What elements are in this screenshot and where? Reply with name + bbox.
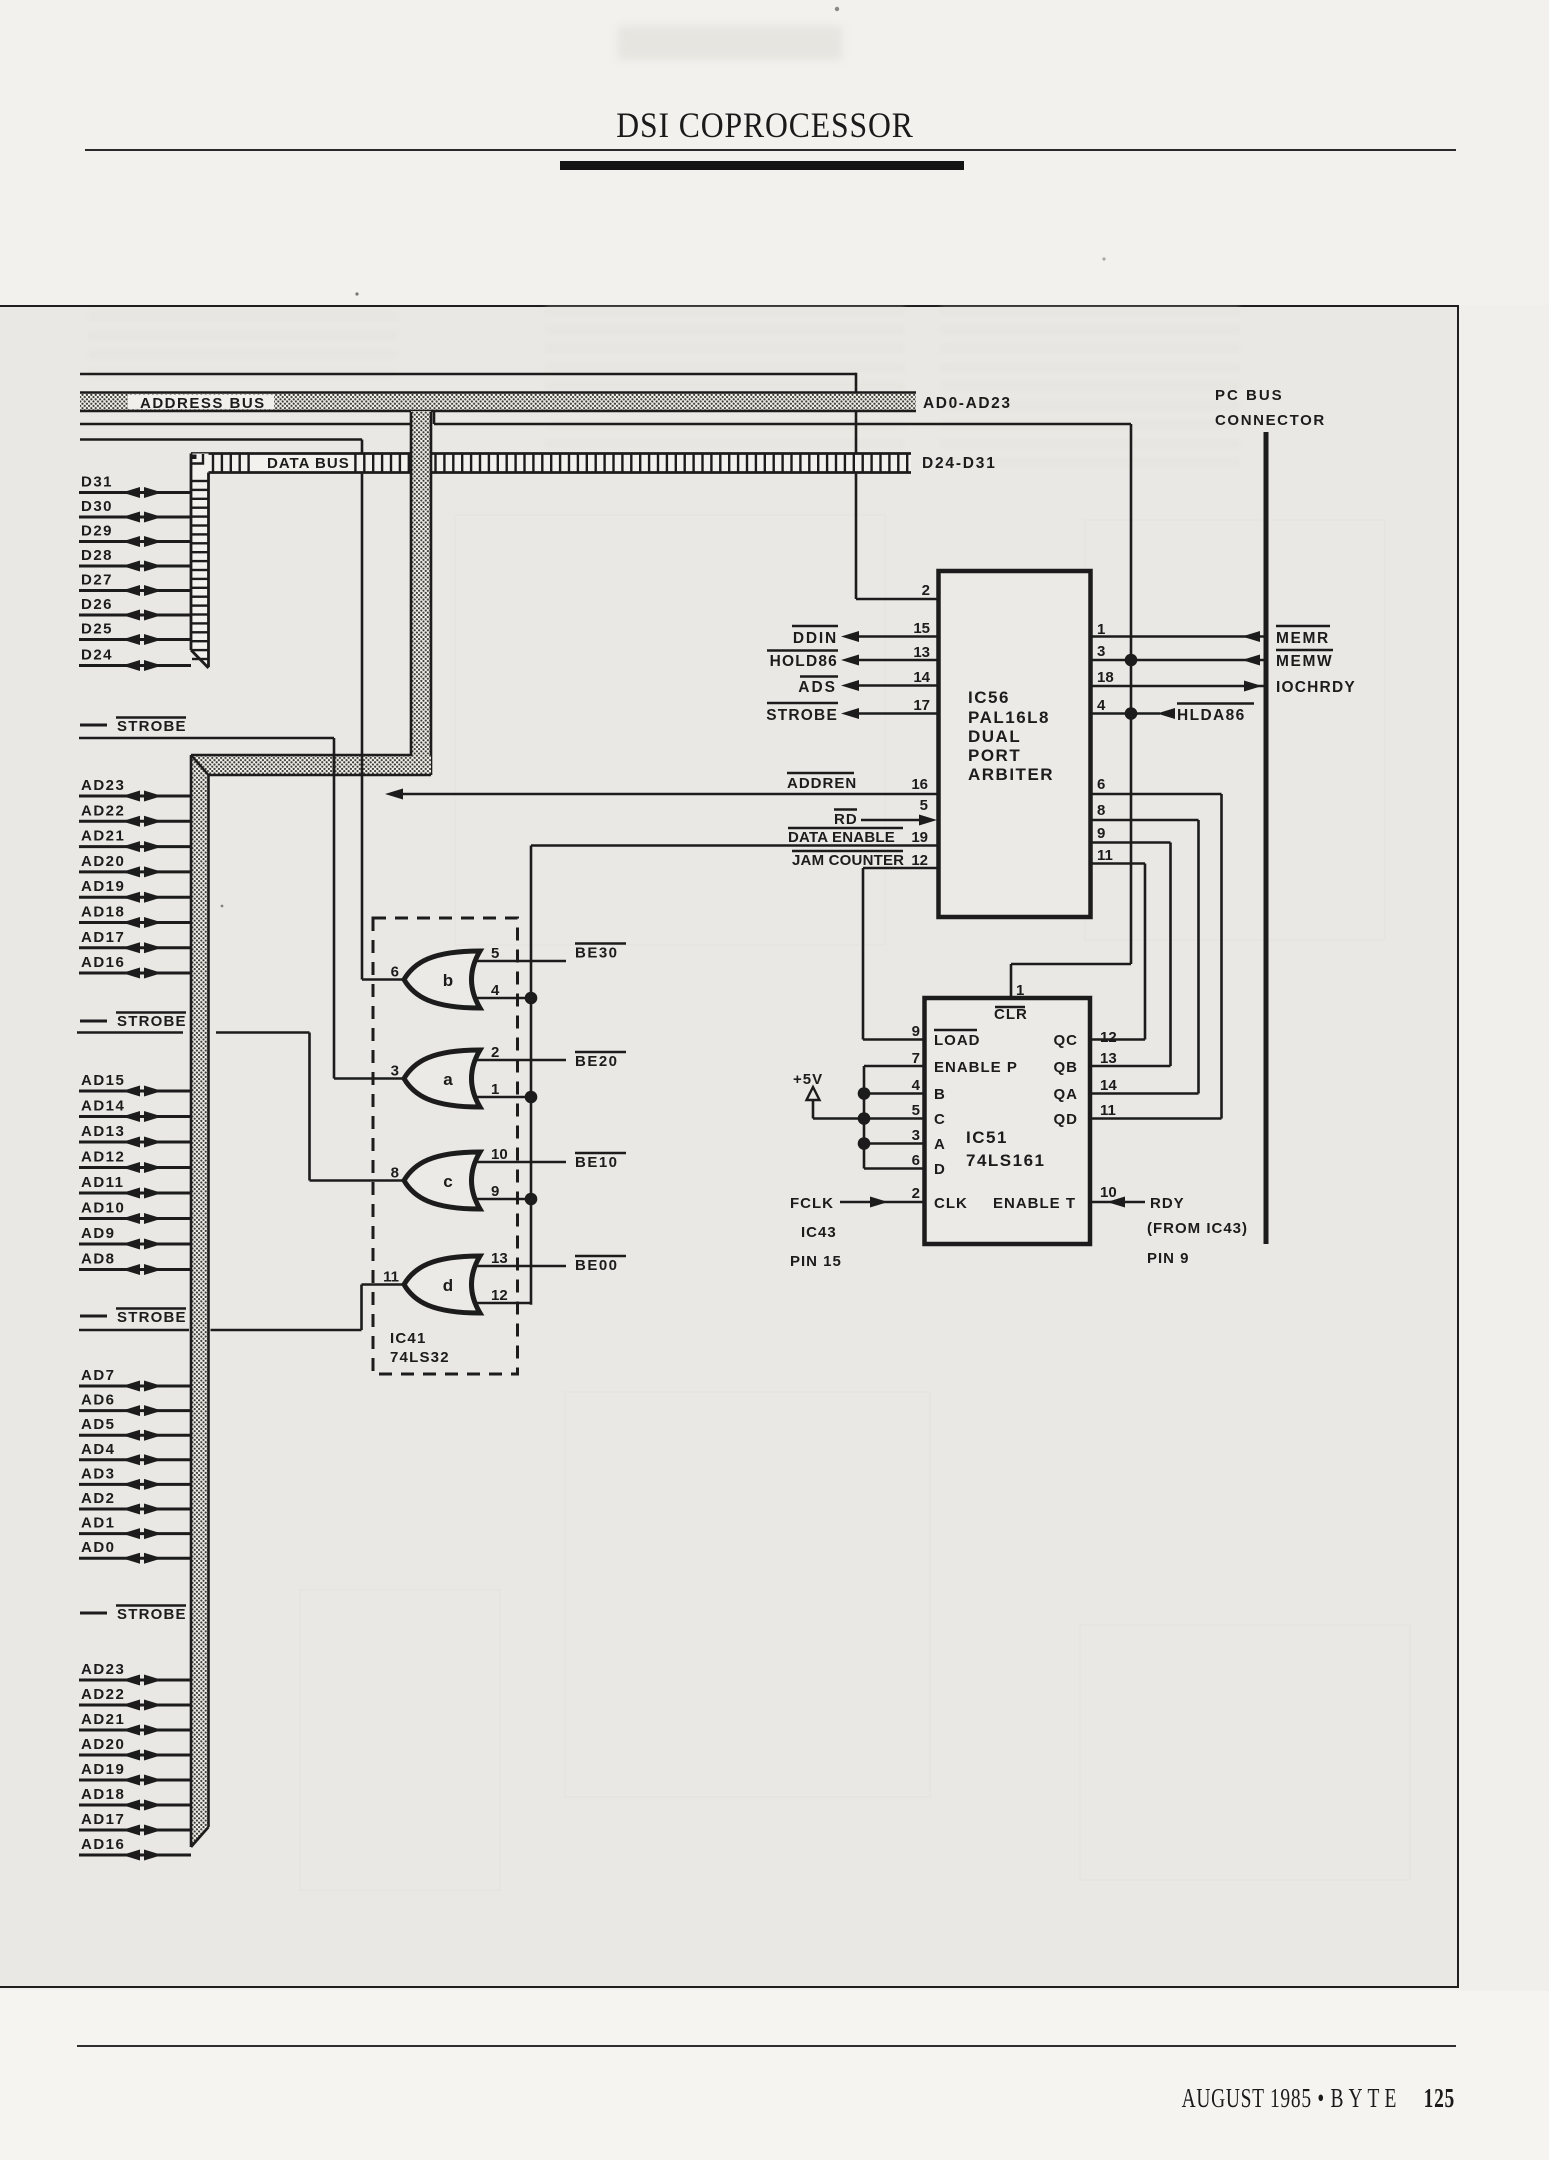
node STROBE (1) [80,718,187,736]
svg-text:8: 8 [391,1165,399,1182]
wire address-bus feeder line 1 (to IC56 pin 2) [80,373,937,599]
footer text [1127,2083,1455,2114]
address bus (AD0-AD23) [80,393,916,413]
wire AD6 [79,1392,191,1417]
svg-text:AD4: AD4 [81,1441,116,1458]
svg-text:MEMW: MEMW [1276,653,1333,670]
wire AD18 (lower group) [79,1786,191,1811]
svg-text:d: d [443,1276,453,1295]
svg-text:AD16: AD16 [81,954,125,971]
node STROBE (4) [80,1606,187,1624]
svg-text:6: 6 [912,1152,920,1169]
wire AD20 [79,853,191,878]
pin 3 IC51 A [864,1127,946,1153]
wire DATA ENABLE net (junction bus to IC56 pin 19) [531,846,937,1305]
wire STROBE(1) to OR-gate a input [79,738,404,1079]
svg-text:PIN 9: PIN 9 [1147,1250,1190,1267]
svg-text:ADDRESS BUS: ADDRESS BUS [140,395,266,412]
svg-text:15: 15 [913,620,930,637]
wire AD16 [79,954,191,979]
wire crossing band (STROBE1 riser) [333,754,336,777]
wire CLR net (bus column to IC51 pin 1) [1011,964,1131,998]
wire AD7 [79,1367,191,1392]
svg-text:AD16: AD16 [81,1836,125,1853]
pin 5 IC51 C [864,1102,946,1128]
wire bus line to PC-bus column (corner x=1131) [80,412,1131,964]
junction HLDA86 / bus column [1125,707,1138,720]
svg-text:AD0: AD0 [81,1539,116,1556]
svg-text:16: 16 [911,776,928,793]
svg-text:CONNECTOR: CONNECTOR [1215,412,1326,429]
svg-text:AD13: AD13 [81,1123,125,1140]
junction MEMW / bus column [1125,654,1138,667]
svg-text:AD1: AD1 [81,1515,116,1532]
or-gate IC41 b (pins 6,5,4) [391,945,566,1008]
svg-text:FCLK: FCLK [790,1195,834,1212]
svg-text:STROBE: STROBE [766,707,838,724]
pin 11 IC51 QD [1054,1102,1222,1128]
svg-text:STROBE: STROBE [117,1013,187,1030]
wire RD (IC56 pin 5) [834,810,937,829]
node BE00 [575,1256,626,1274]
svg-text:b: b [443,971,453,990]
svg-text:AD2: AD2 [81,1490,116,1507]
svg-text:ADS: ADS [798,679,837,696]
svg-text:18: 18 [1097,669,1114,686]
svg-text:AD6: AD6 [81,1392,116,1409]
power +5V supply [793,1071,864,1119]
schematic frame [0,305,1459,1988]
junction at gate a pin 1 [525,1091,538,1104]
wire D30 [79,498,191,523]
svg-text:AD17: AD17 [81,1811,125,1828]
svg-text:PC BUS: PC BUS [1215,387,1284,404]
pin 4 IC51 B [864,1077,946,1103]
svg-text:13: 13 [491,1250,508,1267]
svg-text:A: A [934,1136,946,1153]
svg-text:11: 11 [1097,847,1113,864]
svg-text:10: 10 [1100,1184,1117,1201]
svg-text:AD11: AD11 [81,1174,125,1191]
node PC BUS CONNECTOR [1215,387,1326,1244]
title thick bar [560,161,964,170]
svg-text:AD5: AD5 [81,1416,116,1433]
wire AD0 [79,1539,191,1564]
svg-text:AD21: AD21 [81,828,125,845]
pin 13 IC51 QB [1054,1050,1171,1076]
svg-text:STROBE: STROBE [117,1606,187,1623]
svg-text:JAM COUNTER: JAM COUNTER [792,852,904,869]
svg-text:2: 2 [912,1185,920,1202]
wire AD17 (lower group) [79,1811,191,1836]
svg-text:D29: D29 [81,523,113,540]
wire AD18 [79,904,191,929]
svg-text:AD0-AD23: AD0-AD23 [923,395,1012,412]
svg-text:DATA BUS: DATA BUS [267,455,350,472]
decorative ghost bleed (not labelled further) [88,306,1240,467]
junction +5V bus at C [858,1112,871,1125]
pin 14 IC56 / wire ADS [798,669,937,696]
svg-text:LOAD: LOAD [934,1032,981,1049]
or-gate IC41 d (pins 11,13,12) [383,1250,566,1313]
svg-text:BE20: BE20 [575,1053,619,1070]
svg-text:QB: QB [1054,1059,1079,1076]
svg-text:5: 5 [491,945,499,962]
svg-text:4: 4 [491,982,500,999]
svg-text:14: 14 [913,669,930,686]
svg-text:1: 1 [491,1081,499,1098]
wire AD1 [79,1515,191,1540]
svg-text:AD22: AD22 [81,802,125,819]
svg-text:BE30: BE30 [575,945,619,962]
pin 2 IC51 CLK / wire FCLK [790,1185,968,1270]
svg-text:ADDREN: ADDREN [787,775,857,792]
wire crossing band (gate b riser) [361,754,364,777]
svg-text:AD19: AD19 [81,1761,125,1778]
svg-text:D24-D31: D24-D31 [922,455,997,472]
svg-text:D31: D31 [81,474,113,491]
wire D29 [79,523,191,548]
svg-text:IC51: IC51 [966,1128,1008,1147]
node BE30 [575,944,626,962]
svg-text:6: 6 [391,964,399,981]
pin 18 IC56 / wire IOCHRDY [1091,669,1356,696]
wire AD10 [79,1200,191,1225]
wire data-bus line to OR-gate b input (pin 6 net) [80,440,404,980]
area below frame [0,1990,1549,2160]
svg-text:8: 8 [1097,802,1105,819]
junction +5V bus at B [858,1087,871,1100]
pin 14 IC51 QA [1054,1077,1199,1103]
wire AD8 [79,1251,191,1276]
svg-text:1: 1 [1016,982,1024,999]
node BE20 [575,1052,626,1070]
svg-text:AD7: AD7 [81,1367,116,1384]
svg-text:PORT: PORT [968,746,1021,765]
wire AD20 (lower group) [79,1736,191,1761]
svg-text:AD9: AD9 [81,1225,116,1242]
svg-text:PIN 15: PIN 15 [790,1253,842,1270]
svg-text:AD23: AD23 [81,777,125,794]
wire AD9 [79,1225,191,1250]
wire D24 [79,647,191,672]
svg-text:AD19: AD19 [81,878,125,895]
svg-text:4: 4 [1097,697,1106,714]
pin 8 IC56 / wire to IC51 QA [1091,802,1199,1094]
IC U51 74LS161 counter [925,998,1091,1244]
svg-text:AD10: AD10 [81,1200,125,1217]
wire ADDREN (IC56 pin 16) [385,773,937,800]
svg-text:74LS161: 74LS161 [966,1151,1046,1170]
node BE10 [575,1153,626,1171]
svg-text:12: 12 [491,1287,508,1304]
svg-text:AD17: AD17 [81,929,125,946]
svg-text:MEMR: MEMR [1276,630,1330,647]
wire AD23 (lower group) [79,1661,191,1686]
node STROBE (3) [80,1309,187,1327]
wire D25 [79,621,191,646]
IC U56 PAL16L8 dual port arbiter [939,571,1091,917]
pin 7 IC51 ENABLE P / +5V bus [864,1050,1018,1169]
svg-text:5: 5 [912,1102,920,1119]
svg-text:D: D [934,1161,946,1178]
svg-text:D25: D25 [81,621,113,638]
svg-text:10: 10 [491,1146,508,1163]
svg-text:2: 2 [491,1044,499,1061]
pin 6 IC56 / wire to IC51 QD [1091,776,1222,1119]
svg-text:ENABLE T: ENABLE T [993,1195,1076,1212]
svg-text:AD12: AD12 [81,1149,125,1166]
svg-text:AD8: AD8 [81,1251,116,1268]
svg-text:AD18: AD18 [81,904,125,921]
svg-text:74LS32: 74LS32 [390,1349,450,1366]
svg-text:D27: D27 [81,572,113,589]
wire STROBE(3) to OR-gate d input [79,1285,404,1331]
pin 9 IC56 / wire to IC51 QB [1091,825,1171,1066]
IC41 74LS32 (dashed package outline) [373,918,518,1374]
wire AD5 [79,1416,191,1441]
junction +5V bus at A [858,1137,871,1150]
svg-text:AD22: AD22 [81,1686,125,1703]
pin 3 IC56 / wire MEMW [1091,643,1333,670]
svg-text:17: 17 [913,697,930,714]
wire AD22 (lower group) [79,1686,191,1711]
svg-text:D30: D30 [81,498,113,515]
svg-text:IC56: IC56 [968,688,1010,707]
wire AD4 [79,1441,191,1466]
svg-text:c: c [443,1172,452,1191]
wire JAM COUNTER (IC56 pin 12 to IC51 LOAD) [792,851,937,1040]
svg-text:2: 2 [922,582,930,599]
footer rule [77,2045,1456,2047]
junction at gate c pin 9 [525,1193,538,1206]
or-gate IC41 a (pins 3,2,1) [391,1044,566,1107]
svg-text:STROBE: STROBE [117,718,187,735]
svg-text:AD20: AD20 [81,853,125,870]
svg-text:12: 12 [911,852,928,869]
wire AD21 (lower group) [79,1711,191,1736]
svg-text:B: B [934,1086,946,1103]
pin 13 IC56 / wire HOLD86 [767,644,937,670]
wire D31 [79,474,191,499]
svg-text:4: 4 [912,1077,921,1094]
svg-text:DATA ENABLE: DATA ENABLE [788,829,895,846]
pin 6 IC51 D [864,1152,946,1178]
pin 11 IC56 / wire to IC51 QC [1091,847,1145,1040]
title DSI COPROCESSOR [92,104,1438,146]
svg-text:11: 11 [383,1269,399,1286]
svg-text:DDIN: DDIN [793,630,838,647]
svg-text:IC41: IC41 [390,1330,427,1347]
svg-text:HOLD86: HOLD86 [770,653,838,670]
svg-text:BE10: BE10 [575,1154,619,1171]
svg-text:ARBITER: ARBITER [968,765,1054,784]
svg-text:AD21: AD21 [81,1711,125,1728]
wire AD2 [79,1490,191,1515]
page top area [0,0,1549,306]
svg-text:QD: QD [1054,1111,1079,1128]
svg-text:+5V: +5V [793,1071,823,1088]
svg-text:D24: D24 [81,647,113,664]
svg-text:AD20: AD20 [81,1736,125,1753]
wire AD11 [79,1174,191,1199]
pin 12 IC51 QC [1054,1029,1146,1049]
svg-text:AD15: AD15 [81,1072,125,1089]
svg-text:IC43: IC43 [801,1224,837,1241]
svg-text:C: C [934,1111,946,1128]
pin 4 IC56 / wire HLDA86 [1091,697,1254,724]
svg-text:CLR: CLR [994,1006,1028,1023]
data bus (D24-D31) [191,454,911,669]
svg-text:D28: D28 [81,547,113,564]
svg-text:5: 5 [920,797,928,814]
wire STROBE(2) to OR-gate c input [77,1033,404,1181]
node STROBE (2) [80,1013,187,1031]
node DATA ENABLE label [788,828,903,846]
svg-text:AD14: AD14 [81,1098,125,1115]
svg-text:13: 13 [1100,1050,1117,1067]
wire AD12 [79,1149,191,1174]
right margin strip [1461,305,1549,1991]
svg-text:D26: D26 [81,596,113,613]
svg-text:RD: RD [834,811,858,828]
svg-text:QA: QA [1054,1086,1079,1103]
svg-text:HLDA86: HLDA86 [1177,707,1246,724]
svg-text:IOCHRDY: IOCHRDY [1276,679,1356,696]
or-gate IC41 c (pins 8,10,9) [391,1146,566,1209]
wire D28 [79,547,191,572]
pin 1 IC51 CLR [994,982,1028,1023]
svg-text:QC: QC [1054,1032,1079,1049]
svg-text:7: 7 [912,1050,920,1067]
wire AD19 [79,878,191,903]
svg-text:13: 13 [913,644,930,661]
svg-text:6: 6 [1097,776,1105,793]
svg-text:PAL16L8: PAL16L8 [968,708,1050,727]
svg-text:RDY: RDY [1150,1195,1185,1212]
svg-text:STROBE: STROBE [117,1309,187,1326]
svg-text:9: 9 [912,1023,920,1040]
title thin rule [85,149,1456,151]
svg-text:9: 9 [1097,825,1105,842]
svg-text:AD23: AD23 [81,1661,125,1678]
svg-text:(FROM IC43): (FROM IC43) [1147,1220,1248,1237]
svg-text:3: 3 [912,1127,920,1144]
svg-text:19: 19 [911,829,928,846]
wire AD21 [79,828,191,853]
svg-text:AD3: AD3 [81,1465,116,1482]
svg-text:9: 9 [491,1183,499,1200]
pin 17 IC56 / wire STROBE out [766,697,937,724]
svg-text:12: 12 [1100,1029,1117,1046]
decorative scan specks [835,7,839,11]
svg-text:3: 3 [1097,643,1105,660]
svg-text:DUAL: DUAL [968,727,1021,746]
svg-text:BE00: BE00 [575,1257,619,1274]
wire AD13 [79,1123,191,1148]
pin 15 IC56 / wire DDIN [792,620,937,647]
svg-text:AD18: AD18 [81,1786,125,1803]
wire AD22 [79,802,191,827]
wire AD16 (lower group) [79,1836,191,1861]
svg-text:3: 3 [391,1063,399,1080]
ghost bleed above title [618,26,842,60]
pin 9 IC51 LOAD [912,1023,981,1049]
address bus branch (vertical + horizontal stippled band) [191,411,431,1847]
wire AD23 [79,777,191,802]
wire AD3 [79,1465,191,1490]
wire AD17 [79,929,191,954]
wire D27 [79,572,191,597]
wire AD19 (lower group) [79,1761,191,1786]
wire AD14 [79,1098,191,1123]
wire AD15 [79,1072,191,1097]
junction at gate b pin 4 [525,992,538,1005]
pin 10 IC51 ENABLE T / wire RDY [993,1184,1248,1267]
svg-text:a: a [443,1070,453,1089]
svg-text:CLK: CLK [934,1195,968,1212]
pin 1 IC56 / wire MEMR [1091,621,1330,647]
svg-text:ENABLE P: ENABLE P [934,1059,1018,1076]
svg-text:11: 11 [1100,1102,1116,1119]
svg-text:14: 14 [1100,1077,1117,1094]
wire D26 [79,596,191,621]
